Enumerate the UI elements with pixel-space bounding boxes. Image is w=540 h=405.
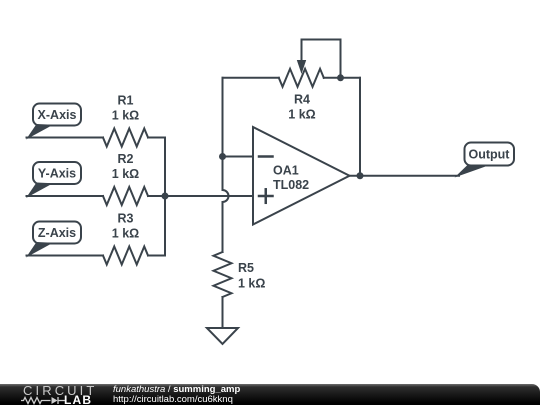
node junction output/feedback (357, 172, 364, 179)
wire R3 to bus (148, 255, 165, 257)
resistor R2 (103, 152, 148, 205)
wire summing bus vertical (164, 138, 166, 256)
logo LAB (64, 395, 92, 405)
svg-text:1 kΩ: 1 kΩ (238, 277, 265, 291)
node junction feedback/- input (219, 153, 226, 160)
logo doodle resistor-diode (21, 396, 67, 405)
logo CIRCUIT (23, 385, 97, 396)
wire Y-Axis to R2 (27, 195, 104, 197)
svg-text:X-Axis: X-Axis (38, 108, 77, 122)
wire X-Axis to R1 (27, 137, 104, 139)
wire - node down to R5 with hop over + wire (223, 157, 229, 253)
wire output (350, 175, 460, 177)
svg-text:Z-Axis: Z-Axis (38, 226, 76, 240)
flag X-Axis (26, 104, 81, 140)
wire feedback left vertical (222, 78, 224, 157)
svg-text:Y-Axis: Y-Axis (38, 167, 76, 181)
op-amp OA1 (253, 127, 350, 225)
flag Y-Axis (26, 162, 81, 198)
resistor R3 (103, 212, 148, 265)
resistor R5 (214, 252, 266, 297)
node junction bus/R2 (162, 193, 169, 200)
svg-text:OA1: OA1 (273, 164, 299, 178)
node junction wiper/right terminal (337, 74, 344, 81)
wire R1 to bus (148, 137, 165, 139)
svg-text:TL082: TL082 (273, 178, 309, 192)
svg-text:R2: R2 (118, 152, 134, 166)
svg-text:1 kΩ: 1 kΩ (112, 109, 139, 123)
svg-text:R3: R3 (118, 212, 134, 226)
svg-text:R5: R5 (238, 261, 254, 275)
wire feedback right vertical (359, 78, 361, 176)
wire Z-Axis to R3 (27, 255, 104, 257)
resistor R1 (103, 94, 148, 147)
flag Output (455, 143, 515, 178)
potentiometer R4 (223, 40, 361, 122)
footer credits (113, 385, 240, 405)
svg-text:1 kΩ: 1 kΩ (288, 108, 315, 122)
ground (207, 328, 238, 344)
flag Z-Axis (26, 222, 81, 258)
svg-text:1 kΩ: 1 kΩ (112, 167, 139, 181)
svg-text:Output: Output (469, 148, 511, 162)
wire R5 to ground (222, 297, 224, 328)
wire R2 to bus (148, 195, 165, 197)
svg-text:1 kΩ: 1 kΩ (112, 227, 139, 241)
svg-text:R1: R1 (118, 94, 134, 108)
footer bar (0, 384, 540, 405)
wire op-amp - input (223, 156, 254, 158)
svg-text:R4: R4 (294, 93, 310, 107)
wire bus to op-amp + input (165, 195, 253, 197)
